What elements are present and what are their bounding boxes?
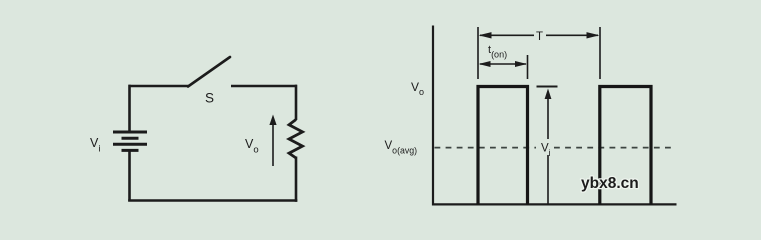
horizontal axis (time baseline) bbox=[432, 203, 677, 205]
Vi arrow upper shaft with arrowhead bbox=[547, 92, 549, 139]
t(on) dimension line with arrows bbox=[480, 63, 526, 65]
battery B1 plate short bottom bbox=[122, 149, 139, 152]
svg-text:T: T bbox=[536, 31, 543, 43]
Vi level tick bbox=[537, 86, 558, 88]
battery B1 plate long bottom bbox=[113, 143, 147, 146]
wire top-right segment bbox=[231, 85, 297, 88]
wire bottom bbox=[128, 199, 297, 202]
extension line left (pulse1 left edge) bbox=[477, 27, 479, 79]
extension line t(on) right (pulse1 right edge) bbox=[527, 55, 529, 79]
vertical axis bbox=[432, 26, 434, 206]
extension line T right (pulse2 left edge) bbox=[599, 27, 601, 79]
wire left lower bbox=[128, 150, 131, 201]
resistor R load bbox=[289, 120, 303, 159]
dashed Vo(avg) level line bbox=[435, 147, 537, 149]
pulse 2 bbox=[600, 87, 651, 205]
wire right upper bbox=[295, 85, 298, 120]
wire left upper bbox=[128, 85, 131, 132]
svg-text:ybx8.cn: ybx8.cn bbox=[581, 175, 639, 192]
svg-text:S: S bbox=[205, 91, 214, 106]
T dimension line with arrows bbox=[480, 34, 534, 36]
wire top-left segment bbox=[129, 85, 190, 88]
Vi arrow lower shaft bbox=[547, 155, 549, 204]
wire right lower bbox=[295, 157, 298, 202]
switch S blade bbox=[188, 57, 230, 87]
Vo arrow bbox=[272, 121, 274, 166]
pulse 1 bbox=[478, 87, 528, 205]
battery B1 plate long top bbox=[113, 131, 147, 134]
battery B1 plate short bbox=[122, 137, 139, 140]
